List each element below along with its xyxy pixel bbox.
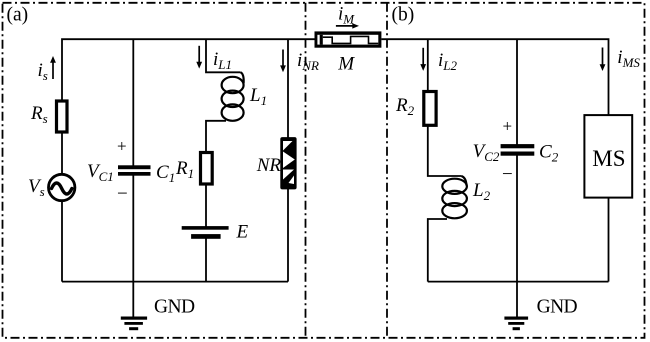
svg-text:M: M <box>337 54 355 75</box>
svg-text:E: E <box>236 222 249 243</box>
svg-text:(a): (a) <box>7 4 29 25</box>
svg-text:(b): (b) <box>392 4 415 25</box>
svg-text:MS: MS <box>592 146 625 171</box>
svg-text:−: − <box>502 164 513 185</box>
svg-text:+: + <box>503 117 513 136</box>
svg-text:NR: NR <box>256 155 282 176</box>
svg-text:−: − <box>117 184 128 205</box>
svg-text:GND: GND <box>154 297 195 318</box>
svg-text:+: + <box>117 137 127 156</box>
svg-text:GND: GND <box>537 297 578 318</box>
